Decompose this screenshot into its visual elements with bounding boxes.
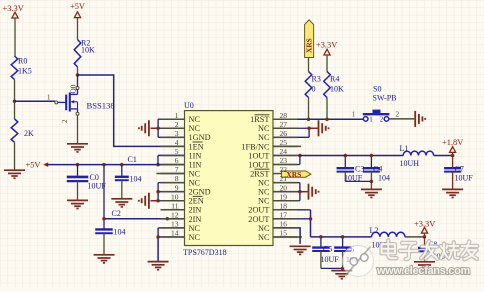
resistor R3 [305, 72, 312, 98]
svg-text:C7: C7 [455, 164, 464, 173]
wire C3-C4 join [345, 180, 371, 182]
capacitor C6 [334, 246, 351, 248]
svg-text:9: 9 [175, 183, 179, 192]
watermark char 1 [382, 241, 397, 259]
resistor 2K [11, 119, 18, 142]
wire R3 to rail [308, 98, 310, 120]
svg-text:27: 27 [280, 120, 288, 129]
junction pins 21-19 bracket [298, 190, 302, 194]
svg-text:104: 104 [130, 174, 142, 183]
junction C4 tap [370, 154, 374, 158]
svg-text:C2: C2 [112, 209, 121, 218]
svg-text:22: 22 [280, 165, 288, 174]
ground below pins 13-14 [148, 261, 169, 263]
svg-text:2EN: 2EN [189, 197, 204, 206]
svg-text:+3.3V: +3.3V [3, 4, 24, 13]
svg-text:NC: NC [258, 188, 270, 197]
svg-text:C4: C4 [373, 164, 382, 173]
svg-text:1: 1 [175, 111, 179, 120]
ground below 2K [4, 169, 25, 171]
junction C1 tap [120, 163, 124, 167]
junction +1.8V node [451, 154, 455, 158]
svg-text:NC: NC [189, 179, 201, 188]
wire U0 pin 16 to ground [273, 228, 300, 244]
svg-text:2IN: 2IN [189, 215, 202, 224]
svg-text:5: 5 [175, 147, 179, 156]
svg-text:C3: C3 [355, 164, 364, 173]
junction C5 tap [319, 235, 323, 239]
svg-text:TPS767D318: TPS767D318 [183, 248, 227, 257]
wire to ground below C4 [370, 181, 372, 189]
wire U0 pin 22 stub [273, 173, 282, 175]
wire rail to C6 [342, 237, 344, 248]
svg-text:+5V: +5V [70, 2, 85, 11]
ground below C6 [331, 270, 352, 272]
svg-text:C1: C1 [128, 155, 137, 164]
inductor L1 [403, 151, 433, 155]
wire C7 to ground [452, 172, 454, 189]
wire R0 to node A [14, 80, 16, 102]
svg-text:1: 1 [369, 115, 373, 123]
svg-text:0: 0 [312, 85, 316, 94]
junction pins 24-23 bracket [298, 154, 302, 158]
node XRS net flag (horizontal) [282, 171, 311, 177]
resistor R2 [74, 40, 81, 68]
wire C4 bottom [370, 172, 372, 182]
U0 pin stub overlays left [161, 118, 185, 120]
svg-text:2K: 2K [24, 129, 34, 138]
svg-text:1EN: 1EN [189, 142, 204, 151]
svg-text:3: 3 [175, 129, 179, 138]
svg-text:XRS: XRS [286, 170, 301, 179]
wire rail down to C2 [103, 165, 105, 229]
wire C1 to ground [121, 180, 123, 198]
wire bracket U0 pins 27-26 [273, 127, 309, 129]
wire to right ground (pins 27-26) [309, 127, 318, 129]
wire drain node to U0 pin 4 [78, 75, 185, 146]
svg-text:2: 2 [175, 120, 179, 129]
ground left of pins 1-3 [148, 120, 150, 136]
wire U0 pin 25 stub [273, 145, 301, 147]
junction rail to pin5/6 bracket [156, 163, 160, 167]
wire C0 to ground [77, 181, 79, 200]
svg-text:15: 15 [280, 229, 288, 238]
watermark char 3 [421, 241, 437, 259]
svg-text:NC: NC [258, 179, 270, 188]
svg-text:1: 1 [352, 111, 356, 119]
svg-text:NC: NC [189, 224, 201, 233]
svg-text:10K: 10K [81, 46, 95, 55]
junction pins1-3 bracket [156, 127, 160, 131]
wire +5V rail [48, 164, 158, 166]
watermark char 2 [400, 243, 418, 259]
capacitor C0 [67, 176, 89, 179]
svg-text:NC: NC [258, 197, 270, 206]
svg-text:18: 18 [280, 201, 288, 210]
svg-text:104: 104 [114, 227, 126, 236]
wire +3.3V arrow lead [424, 233, 426, 237]
U0 pin stub overlays right [273, 236, 298, 238]
wire to left ground (pins 1-3) [151, 127, 159, 129]
wire to U0 pin 6 [158, 164, 185, 166]
svg-text:12: 12 [171, 210, 179, 219]
svg-text:10UF: 10UF [321, 255, 340, 264]
wire bracket U0 pins 21-19 [273, 182, 300, 184]
svg-text:2: 2 [380, 115, 384, 123]
op-amp U1 n/a : IC body U0 TPS767D318 [185, 111, 274, 246]
capacitor C5 [312, 246, 329, 248]
wire C2 branch to U0 pin 12 [104, 218, 185, 220]
svg-text:1OUT: 1OUT [248, 160, 269, 169]
wire rail to C5 [320, 237, 322, 248]
svg-text:L1: L1 [400, 144, 409, 153]
svg-text:26: 26 [280, 129, 288, 138]
wire XRS flag to R3 [308, 58, 310, 72]
wire bracket U0 pins 8-10 [157, 183, 159, 201]
wire 2OUT down [310, 210, 312, 237]
ground below C7 [442, 188, 463, 190]
wire gate lead [58, 101, 66, 103]
wire bracket U0 pins 24-23 [273, 154, 300, 156]
wire 2OUT rail [311, 236, 372, 238]
svg-text:13: 13 [171, 220, 179, 229]
wire +1.8V arrow lead [452, 152, 454, 155]
svg-text:R4: R4 [330, 75, 339, 84]
junction C6 tap [341, 235, 345, 239]
wire C3 bottom [344, 172, 346, 182]
ground below C8 [414, 261, 435, 263]
svg-text:L2: L2 [370, 226, 379, 235]
junction pin 12 wire [166, 217, 170, 221]
svg-text:10UH: 10UH [400, 159, 420, 168]
junction +3.3V node [423, 235, 427, 239]
wire lead +3.3V to R0 [14, 18, 16, 56]
svg-text:XRS: XRS [305, 38, 314, 53]
wire node A to Q0 gate [15, 100, 55, 102]
svg-text:25: 25 [280, 138, 288, 147]
junction C3 tap [344, 154, 348, 158]
svg-text:104: 104 [378, 173, 390, 182]
svg-text:23: 23 [280, 156, 288, 165]
wire bracket U0 pins 1-3 [157, 119, 159, 137]
svg-text:20: 20 [280, 183, 288, 192]
junction C2 tap [102, 163, 106, 167]
svg-text:BSS138: BSS138 [87, 101, 115, 111]
wire to U0 pin 5 [158, 154, 185, 156]
wire bracket U0 pins 13-14 [158, 227, 184, 229]
wire node to C8 [424, 237, 426, 248]
capacitor C4 [363, 167, 380, 169]
wire C6 bottom [342, 251, 344, 268]
svg-text:S0: S0 [373, 84, 381, 93]
junction C3-C4 join [370, 180, 374, 184]
junction drain node [76, 73, 80, 77]
wire to left ground (pins 8-10) [151, 200, 159, 202]
wire C2 to ground [103, 233, 105, 254]
wire rail to C0 [77, 165, 79, 177]
junction R3 tap [307, 117, 311, 121]
svg-text:SW-PB: SW-PB [373, 93, 397, 102]
ground below pin 16 [290, 245, 311, 247]
svg-text:NC: NC [189, 124, 201, 133]
capacitor C2 [95, 228, 113, 230]
ground below Q0 source [67, 143, 88, 145]
junction C0 tap [76, 163, 80, 167]
svg-text:www.elecfans.com: www.elecfans.com [376, 265, 470, 277]
svg-text:11: 11 [171, 201, 178, 210]
wire pins13-14 down to ground [157, 237, 159, 261]
wire C5-C6 join [321, 267, 343, 269]
wire to right ground (pins 21-19) [300, 191, 308, 193]
watermark char 5 [462, 241, 478, 259]
wire C5 bottom [320, 251, 322, 268]
svg-text:1: 1 [47, 93, 51, 101]
svg-text:U0: U0 [184, 101, 194, 110]
svg-text:8: 8 [175, 174, 179, 183]
junction pin 17 bracket [309, 217, 313, 221]
wire C8 to ground [424, 251, 426, 261]
ground left of pins 8-10 [148, 193, 150, 209]
transistor Q0 BSS138 [77, 75, 79, 87]
ground right of pins 21-19 [308, 184, 310, 200]
wire node to C7 [452, 155, 454, 168]
svg-text:1RST: 1RST [250, 115, 269, 124]
wire 2K to ground [14, 142, 16, 170]
svg-text:1FB/NC: 1FB/NC [241, 142, 270, 151]
svg-text:2IN: 2IN [189, 206, 202, 215]
svg-text:NC: NC [189, 169, 201, 178]
svg-text:16: 16 [280, 220, 288, 229]
svg-text:+5V: +5V [26, 160, 41, 169]
junction pin 14 bracket [156, 235, 160, 239]
junction C2 branch [102, 217, 106, 221]
Q0 gate pin circle [55, 101, 58, 104]
wire R2 to drain node [77, 67, 79, 75]
wire lead +5V to R2 [77, 18, 79, 40]
wire R4 to rail [326, 98, 328, 120]
wire bracket U0 pins 18-17 [273, 209, 311, 211]
wire Q0 source to ground [77, 115, 79, 143]
junction pins 27-26 bracket [307, 127, 311, 131]
svg-text:21: 21 [280, 174, 288, 183]
wire L2 to +3.3V node [405, 236, 425, 238]
wire U0 pin 28 rail [273, 118, 363, 120]
resistor R0 [11, 56, 18, 80]
svg-text:1GND: 1GND [189, 133, 211, 142]
svg-text:4: 4 [175, 138, 179, 147]
ground below C1 [111, 198, 132, 200]
wire bracket U0 pins 5-6 [157, 155, 159, 164]
svg-text:NC: NC [258, 133, 270, 142]
svg-text:1OUT: 1OUT [248, 151, 269, 160]
watermark char 4 [441, 242, 458, 258]
svg-text:1K5: 1K5 [18, 67, 32, 76]
svg-text:14: 14 [171, 229, 179, 238]
svg-text:24: 24 [280, 147, 288, 156]
capacitor C8 [418, 247, 431, 249]
junction pins 8-10 bracket [156, 190, 160, 194]
svg-text:28: 28 [280, 111, 288, 120]
svg-text:2: 2 [62, 119, 69, 123]
node XRS net flag (vertical) [305, 20, 314, 58]
svg-text:2OUT: 2OUT [248, 206, 269, 215]
svg-text:1IN: 1IN [189, 151, 202, 160]
resistor R4 [324, 72, 331, 98]
wire rail to C1 [121, 165, 123, 177]
junction R4 tap [325, 117, 329, 121]
svg-text:10UF: 10UF [455, 173, 474, 182]
ground below C2 [94, 254, 115, 256]
svg-text:10K: 10K [330, 85, 344, 94]
wire switch to ground [389, 118, 415, 120]
svg-text:C5: C5 [323, 244, 332, 253]
junction node A (R0/2K/gate) [13, 99, 17, 103]
svg-text:R3: R3 [312, 75, 321, 84]
svg-text:+3.3V: +3.3V [316, 41, 337, 50]
wire rail to C3 [344, 155, 346, 168]
svg-text:19: 19 [280, 192, 288, 201]
capacitor C1 [115, 176, 129, 178]
svg-text:17: 17 [280, 210, 288, 219]
wire 1OUT rail [300, 154, 403, 156]
svg-text:NC: NC [258, 124, 270, 133]
svg-text:NC: NC [258, 233, 270, 242]
wire node A to 2K [14, 101, 16, 119]
ground right of switch [414, 111, 416, 127]
svg-text:7: 7 [175, 165, 179, 174]
svg-text:6: 6 [175, 156, 179, 165]
capacitor C3 [337, 167, 355, 169]
svg-text:NC: NC [258, 224, 270, 233]
wire +3.3V to R4 [326, 55, 328, 72]
svg-text:NC: NC [189, 233, 201, 242]
svg-text:2OUT: 2OUT [248, 215, 269, 224]
wire U0 pin 7 stub [157, 173, 185, 175]
capacitor C7 [444, 167, 461, 169]
svg-text:R0: R0 [18, 57, 27, 66]
inductor L2 [372, 232, 405, 237]
svg-text:1IN: 1IN [189, 160, 202, 169]
watermark logo circle [342, 245, 373, 276]
ground below C4 [361, 188, 382, 190]
junction ground stem pins 8-10 [156, 199, 160, 203]
wire rail to C4 [370, 155, 372, 168]
svg-text:NC: NC [189, 115, 201, 124]
svg-text:2: 2 [396, 111, 400, 119]
wire U0 pin 15 stub [273, 236, 302, 238]
junction C5-C6 join [341, 267, 345, 271]
svg-text:2RST: 2RST [250, 169, 269, 178]
svg-text:2GND: 2GND [189, 188, 211, 197]
wire U0 pin 11 stub [166, 209, 185, 211]
svg-text:10: 10 [171, 192, 179, 201]
wire L1 to +1.8V node [434, 154, 453, 156]
ground below C0 [67, 199, 88, 201]
ground right of pins 27-26 [318, 120, 320, 136]
